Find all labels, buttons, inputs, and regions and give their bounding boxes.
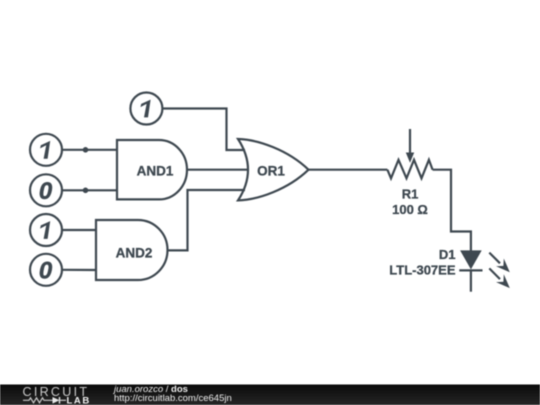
wire IN5 to OR1 top input [162, 109, 245, 151]
diode D1 (LED) [389, 247, 482, 292]
svg-text:0: 0 [39, 178, 53, 205]
LED emission arrow 2 [489, 268, 510, 288]
svg-text:100 Ω: 100 Ω [392, 202, 428, 217]
wire IN2 to AND1 bottom input [62, 189, 117, 191]
wire OR1 output to R1 [309, 169, 388, 171]
resistor R1 (potentiometer) [387, 129, 432, 217]
gate AND1 [117, 140, 187, 199]
svg-text:AND1: AND1 [137, 163, 174, 178]
wire AND2 output to OR1 bottom input [167, 190, 245, 250]
svg-text:AND2: AND2 [116, 245, 153, 260]
wire IN3 to AND2 top input [62, 229, 96, 231]
wire AND1 output to OR1 middle input [187, 169, 249, 171]
CircuitLab logo resistor symbol [23, 398, 53, 403]
svg-text:D1: D1 [439, 247, 456, 262]
node IN3 (logic 1 input to AND2) [30, 214, 62, 246]
junction dot on IN2 wire [83, 188, 89, 194]
node IN4 (logic 0 input to AND2) [30, 254, 62, 286]
svg-text:0: 0 [39, 257, 53, 284]
wire R1 to D1 [433, 170, 471, 251]
svg-text:http://circuitlab.com/ce645jn: http://circuitlab.com/ce645jn [114, 393, 232, 404]
gate OR1 [238, 139, 309, 200]
svg-text:LTL-307EE: LTL-307EE [389, 262, 456, 277]
LED emission arrow 1 [489, 253, 510, 273]
wire IN4 to AND2 bottom input [62, 269, 96, 271]
svg-text:LAB: LAB [67, 395, 91, 405]
node IN1 (logic 1 input to AND1) [30, 134, 62, 166]
svg-text:OR1: OR1 [257, 164, 285, 179]
wiper arrow of R1 [409, 129, 411, 154]
CircuitLab logo diode symbol [53, 397, 60, 404]
svg-text:R1: R1 [402, 186, 419, 201]
node IN2 (logic 0 input to AND1) [30, 174, 62, 206]
wire IN1 to AND1 top input [62, 149, 117, 151]
node IN5 (logic 1 input to OR1, top) [130, 93, 162, 125]
gate AND2 [96, 220, 168, 280]
junction dot on IN1 wire [83, 147, 89, 153]
